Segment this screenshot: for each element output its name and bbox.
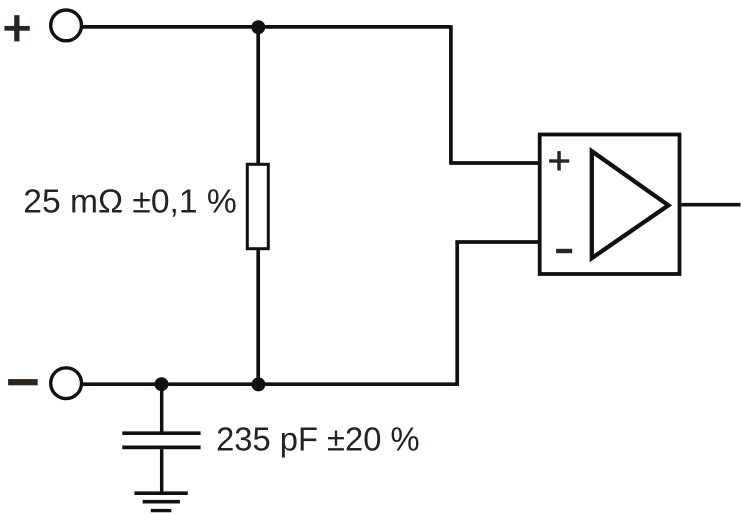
wire: op-amp output [681,203,740,207]
svg-text:25 mΩ ±0,1 %: 25 mΩ ±0,1 % [23,183,236,220]
wire: bottom rail from - terminal to corner [83,382,457,386]
wire: op-amp - input horizontal [455,240,539,244]
op-amp - input label [556,249,572,253]
svg-text:235 pF ±20 %: 235 pF ±20 % [216,422,420,459]
node junction dot (bottom, capacitor tap) [155,377,169,391]
wire: vertical rise to op-amp - input [455,242,459,386]
ground symbol bar 1 [134,491,187,495]
op-amp triangle [592,151,669,258]
terminal circle (positive input) [51,10,82,41]
wire: top rail from + terminal to corner [83,25,451,29]
node junction dot (top, resistor tap) [251,20,265,34]
ground symbol bar 2 [143,500,180,504]
wire: capacitor ground lead [160,449,164,493]
resistor R 25 mOhm body [247,164,268,248]
wire: resistor top lead [256,27,260,164]
wire: capacitor top lead [160,384,164,431]
wire: op-amp + input horizontal [449,161,539,165]
minus polarity symbol (bottom left) [8,379,38,385]
capacitor C 235 pF top plate [122,431,200,435]
ground symbol bar 3 [151,509,172,512]
op-amp U1 box [540,135,680,275]
wire: resistor bottom lead [256,250,260,385]
plus polarity symbol (top left) [4,15,29,41]
wire: vertical drop to op-amp + input [449,25,453,163]
op-amp + input label [549,151,569,170]
node junction dot (bottom, resistor tap) [251,377,265,391]
capacitor C 235 pF bottom plate [122,446,200,450]
terminal circle (negative input) [51,368,82,399]
